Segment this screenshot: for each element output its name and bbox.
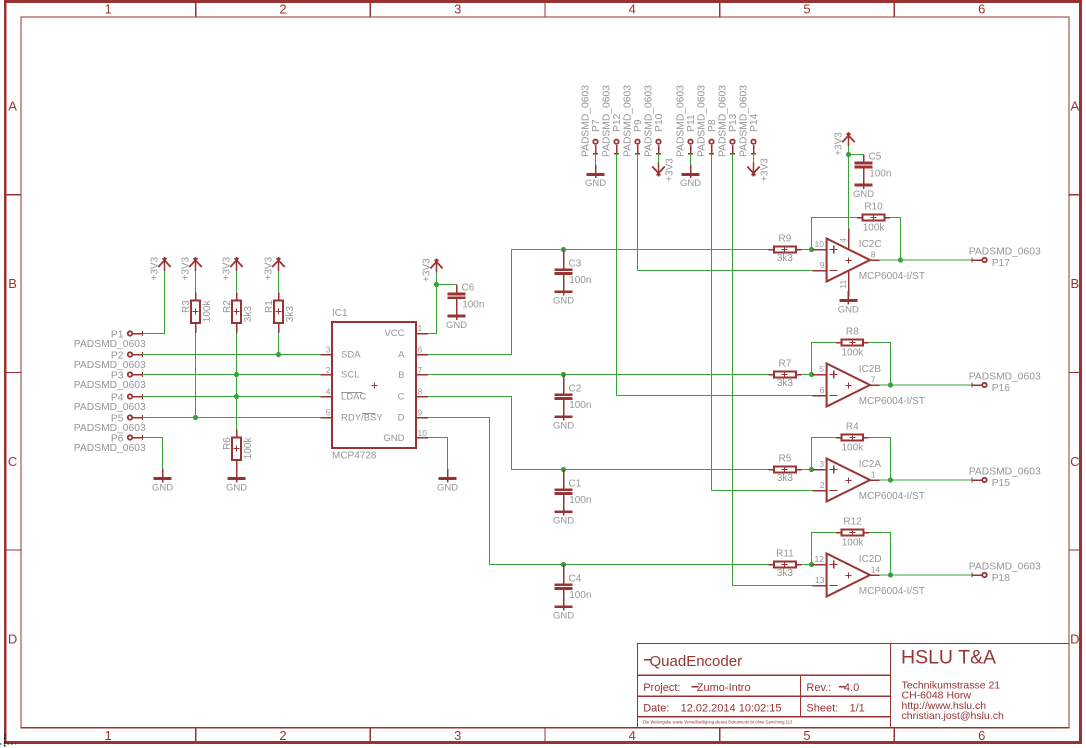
svg-text:C6: C6 (462, 283, 475, 294)
ground at C3 (553, 282, 574, 306)
svg-text:GND: GND (383, 433, 404, 444)
wire feedback IC2C (812, 218, 858, 250)
junction (846, 152, 851, 157)
resistor R10 (857, 214, 890, 220)
ground at P11 (680, 165, 701, 189)
IC1 pin names right (383, 328, 405, 444)
svg-text:5: 5 (326, 407, 331, 417)
svg-text:Sheet:: Sheet: (806, 702, 838, 714)
pad P3 (128, 372, 143, 377)
svg-text:SDA: SDA (341, 350, 361, 361)
capacitor C5 (855, 155, 873, 176)
wire P10 to +3V3 (658, 154, 660, 163)
svg-text:R5: R5 (779, 454, 792, 465)
capacitor C2 (555, 375, 573, 408)
svg-text:Die Weitergabe sowie Vervielfa: Die Weitergabe sowie Vervielfaeltigung d… (643, 719, 793, 724)
svg-text:6: 6 (418, 344, 423, 354)
svg-text:3k3: 3k3 (777, 378, 794, 389)
supply +3V3 at P10 (652, 163, 664, 177)
svg-text:GND: GND (226, 482, 247, 493)
svg-text:100k: 100k (841, 347, 864, 358)
svg-text:5: 5 (803, 728, 810, 743)
wire P6 to GND (143, 438, 163, 470)
svg-text:Zumo-Intro: Zumo-Intro (697, 682, 751, 694)
svg-text:C: C (1070, 454, 1079, 469)
pin wire R3 top (195, 292, 197, 300)
svg-text:PADSMD_0603: PADSMD_0603 (74, 402, 146, 413)
svg-text:GND: GND (680, 178, 701, 189)
svg-text:GND: GND (553, 611, 574, 622)
resistor R1 (274, 300, 283, 322)
svg-text:9: 9 (418, 407, 423, 417)
svg-text:GND: GND (437, 482, 458, 493)
svg-text:3k3: 3k3 (777, 253, 794, 264)
svg-text:IC2A: IC2A (859, 459, 882, 470)
svg-text:P18: P18 (992, 573, 1011, 584)
wire +3V3 to R3 (195, 271, 197, 292)
junction (561, 372, 566, 377)
svg-text:R12: R12 (843, 517, 862, 528)
ground at C4 (553, 597, 574, 621)
op-amp IC2D (812, 554, 879, 597)
wire P13 down (732, 154, 734, 586)
svg-text:R3: R3 (181, 300, 192, 313)
wire P7 to GND (595, 154, 597, 165)
svg-text:MCP6004-I/ST: MCP6004-I/ST (859, 586, 925, 597)
wire feedback right IC2B (869, 343, 891, 386)
svg-text:HSLU T&A: HSLU T&A (901, 647, 996, 669)
svg-text:2: 2 (820, 480, 825, 490)
svg-text:PADSMD_0603: PADSMD_0603 (676, 85, 687, 157)
svg-text:1: 1 (105, 2, 112, 17)
sheet origin mark (0, 734, 16, 748)
wire IC2B noninverting input (802, 374, 813, 376)
svg-text:100n: 100n (569, 495, 591, 506)
svg-text:PADSMD_0603: PADSMD_0603 (581, 85, 592, 157)
wire +3V3 to C6 (437, 284, 457, 286)
svg-text:B: B (1070, 276, 1079, 291)
svg-text:4: 4 (838, 238, 848, 243)
svg-text:100n: 100n (869, 169, 891, 180)
svg-text:IC2C: IC2C (859, 239, 882, 250)
title project origin mark (692, 686, 699, 688)
svg-text:+3V3: +3V3 (263, 256, 274, 280)
junction (234, 372, 239, 377)
pin wire R6 top (236, 430, 238, 438)
wire net OUTD (428, 418, 768, 565)
wire P8 to IC2A inverting input (712, 490, 813, 492)
resistor R7 (768, 371, 801, 377)
wire P1 to +3V3 (143, 271, 165, 334)
capacitor C4 (555, 565, 573, 598)
pad P16 (972, 383, 987, 388)
svg-text:LDAC: LDAC (341, 392, 366, 403)
junction (276, 352, 281, 357)
pin wire R2 top (236, 292, 238, 300)
junction (809, 372, 814, 377)
wire P14 to +3V3 (753, 154, 755, 163)
wire P9 to IC2C inverting input (638, 270, 813, 272)
svg-text:100n: 100n (569, 590, 591, 601)
junction (561, 467, 566, 472)
svg-text:+3V3: +3V3 (221, 256, 232, 280)
wire P11 to GND (690, 154, 692, 165)
svg-text:+3V3: +3V3 (180, 256, 191, 280)
wire net OUTA (428, 250, 768, 355)
junction (809, 562, 814, 567)
svg-text:8: 8 (418, 386, 423, 396)
svg-text:4.0: 4.0 (844, 682, 859, 694)
svg-text:+3V3: +3V3 (760, 158, 771, 182)
svg-text:MCP6004-I/ST: MCP6004-I/ST (859, 491, 925, 502)
ground at P6 (152, 469, 173, 493)
svg-text:MCP6004-I/ST: MCP6004-I/ST (859, 396, 925, 407)
svg-text:D: D (8, 632, 17, 647)
svg-text:PADSMD_0603: PADSMD_0603 (74, 423, 146, 434)
svg-text:12: 12 (815, 554, 825, 564)
wire R1 to SDA (278, 333, 280, 355)
svg-text:11: 11 (838, 280, 848, 289)
resistor R12 (836, 529, 869, 535)
op-amp IC2B (812, 364, 879, 407)
title rev origin mark (839, 686, 846, 688)
svg-text:14: 14 (871, 565, 881, 575)
svg-text:R8: R8 (846, 327, 859, 338)
junction (434, 282, 439, 287)
wire feedback right IC2A (869, 438, 891, 481)
pad P8 (709, 140, 714, 154)
resistor R5 (768, 466, 801, 472)
svg-text:+3V3: +3V3 (149, 256, 160, 280)
junction (888, 477, 893, 482)
title block frame (638, 644, 1070, 728)
wire feedback IC2D (812, 533, 837, 565)
svg-text:PADSMD_0603: PADSMD_0603 (644, 85, 655, 157)
junction (809, 467, 814, 472)
svg-text:PADSMD_0603: PADSMD_0603 (623, 85, 634, 157)
wire output IC2C to P17 (880, 259, 973, 261)
svg-text:10: 10 (418, 428, 428, 438)
wire P12 down (616, 154, 618, 396)
svg-text:1: 1 (871, 470, 876, 480)
IC IC1 MCP4728 body (321, 322, 429, 448)
svg-text:PADSMD_0603: PADSMD_0603 (74, 380, 146, 391)
svg-text:4: 4 (629, 2, 636, 17)
wire feedback IC2A (812, 438, 837, 470)
capacitor C3 (555, 250, 573, 283)
svg-text:IC1: IC1 (332, 308, 348, 319)
svg-text:R9: R9 (779, 234, 792, 245)
svg-text:P7: P7 (591, 119, 602, 132)
op-amp power pin 4 (848, 229, 850, 250)
capacitor C6 (448, 285, 466, 307)
svg-text:C: C (8, 454, 17, 469)
IC1 pin names left (341, 350, 384, 424)
pad P18 (972, 573, 987, 578)
svg-text:B: B (8, 276, 17, 291)
svg-text:MCP6004-I/ST: MCP6004-I/ST (859, 271, 925, 282)
svg-text:+3V3: +3V3 (665, 158, 676, 182)
wire output IC2A to P15 (880, 479, 973, 481)
svg-text:100k: 100k (202, 300, 213, 323)
wire P12 to IC2B inverting input (617, 395, 813, 397)
pin wire R1 top (278, 292, 280, 300)
ground at C6 (446, 307, 467, 331)
supply +3V3 at R1 (272, 257, 284, 271)
pad P15 (972, 478, 987, 483)
svg-text:VCC: VCC (384, 328, 404, 339)
svg-text:100n: 100n (569, 400, 591, 411)
svg-text:P10: P10 (654, 113, 665, 132)
svg-text:100k: 100k (863, 222, 886, 233)
junction (809, 247, 814, 252)
wire net OUTC (428, 397, 768, 470)
svg-text:PADSMD_0603: PADSMD_0603 (74, 443, 146, 454)
svg-text:PADSMD_0603: PADSMD_0603 (969, 562, 1041, 573)
svg-text:GND: GND (553, 421, 574, 432)
svg-text:MCP4728: MCP4728 (332, 450, 377, 461)
svg-text:PADSMD_0603: PADSMD_0603 (602, 85, 613, 157)
pad P5 (128, 415, 143, 420)
wire feedback IC2B (812, 343, 837, 375)
svg-text:P8: P8 (707, 119, 718, 132)
resistor R2 (232, 300, 241, 322)
pad P12 (614, 140, 619, 154)
svg-text:2: 2 (279, 728, 286, 743)
svg-text:+3V3: +3V3 (421, 258, 432, 282)
svg-text:A: A (398, 350, 405, 361)
frame column ticks bottom (196, 728, 895, 742)
pad P7 (593, 140, 598, 154)
wire IC2C noninverting input (802, 249, 813, 251)
wire IC2D noninverting input (802, 564, 813, 566)
pad P9 (635, 140, 640, 154)
wire net SDA (143, 354, 321, 356)
svg-text:PADSMD_0603: PADSMD_0603 (969, 372, 1041, 383)
ground at C2 (553, 407, 574, 431)
wire R3 to RDYBSY (195, 333, 197, 418)
ground at R6 (226, 469, 247, 493)
junction (898, 257, 903, 262)
svg-text:3: 3 (454, 728, 461, 743)
wire +3V3 to R2 (236, 271, 238, 292)
svg-text:C5: C5 (869, 152, 882, 163)
svg-text:100k: 100k (842, 537, 865, 548)
wire P13 to IC2D inverting input (733, 585, 813, 587)
svg-text:1: 1 (418, 323, 423, 333)
svg-text:100k: 100k (841, 442, 864, 453)
supply +3V3 at P14 (747, 163, 759, 177)
resistor R8 (836, 339, 869, 345)
svg-text:D: D (398, 413, 405, 424)
resistor R3 (191, 300, 200, 322)
op-amp IC2C (812, 239, 879, 282)
svg-text:GND: GND (553, 296, 574, 307)
svg-text:GND: GND (838, 304, 859, 315)
ground at IC2C pin 11 (838, 291, 859, 315)
svg-text:P13: P13 (728, 113, 739, 132)
svg-text:R7: R7 (779, 359, 792, 370)
svg-text:1: 1 (105, 728, 112, 743)
svg-text:8: 8 (871, 250, 876, 260)
svg-text:A: A (1070, 98, 1079, 113)
svg-text:10: 10 (815, 239, 825, 249)
svg-text:B: B (398, 370, 404, 381)
capacitor C1 (555, 470, 573, 503)
wire output IC2D to P18 (880, 574, 973, 576)
svg-text:+3V3: +3V3 (833, 132, 844, 156)
svg-text:A: A (8, 98, 17, 113)
title drawing name origin mark (644, 659, 652, 661)
resistor R11 (768, 561, 801, 567)
wire P9 down (637, 154, 639, 271)
resistor R6 (232, 437, 241, 459)
svg-text:R11: R11 (776, 549, 794, 560)
ground at P7 (585, 165, 606, 189)
svg-text:C2: C2 (569, 383, 582, 394)
pad P2 (128, 352, 143, 357)
svg-text:P12: P12 (612, 113, 623, 132)
svg-text:P14: P14 (749, 113, 760, 132)
pad P13 (730, 140, 735, 154)
wire P8 down (711, 154, 713, 491)
svg-text:D: D (1070, 632, 1079, 647)
ground at C5 (853, 176, 874, 200)
svg-text:3: 3 (326, 344, 331, 354)
svg-text:IC2D: IC2D (859, 554, 882, 565)
svg-text:P9: P9 (633, 119, 644, 132)
svg-text:3k3: 3k3 (777, 473, 794, 484)
svg-text:PADSMD_0603: PADSMD_0603 (697, 85, 708, 157)
frame column labels bottom (105, 728, 986, 743)
wire +3V3 to R1 (278, 271, 280, 292)
pin wire R3 bottom (195, 323, 197, 333)
svg-text:R2: R2 (222, 300, 233, 313)
junction (193, 415, 198, 420)
svg-text:P15: P15 (992, 478, 1011, 489)
wire +3V3 to IC2C power (848, 146, 850, 229)
supply +3V3 at R2 (230, 257, 242, 271)
svg-text:4: 4 (629, 728, 636, 743)
svg-text:3k3: 3k3 (285, 306, 296, 323)
svg-text:PADSMD_0603: PADSMD_0603 (718, 85, 729, 157)
svg-text:PADSMD_0603: PADSMD_0603 (969, 467, 1041, 478)
pad P10 (656, 140, 661, 154)
svg-text:6: 6 (978, 728, 985, 743)
svg-text:3k3: 3k3 (243, 306, 254, 323)
svg-text:1/1: 1/1 (850, 702, 865, 714)
svg-text:3: 3 (819, 459, 824, 469)
frame column labels top (105, 2, 986, 17)
svg-text:2: 2 (326, 365, 331, 375)
svg-text:C: C (398, 392, 405, 403)
resistor R4 (836, 434, 869, 440)
wire feedback right IC2C (890, 218, 900, 261)
svg-text:R1: R1 (264, 300, 275, 313)
svg-text:PADSMD_0603: PADSMD_0603 (74, 360, 146, 371)
svg-text:C4: C4 (569, 573, 582, 584)
svg-text:Rev.:: Rev.: (806, 682, 831, 694)
frame row ticks right (1069, 195, 1080, 550)
IC1 pin numbers (326, 323, 427, 438)
wire net SCL (143, 374, 321, 376)
supply +3V3 at IC1 VCC (430, 259, 442, 273)
wire net RDYBSY (143, 417, 321, 419)
pad P17 (972, 258, 987, 263)
junction (234, 394, 239, 399)
pin wire R6 bottom (236, 461, 238, 469)
ground at C1 (553, 502, 574, 526)
svg-text:Date:: Date: (643, 702, 669, 714)
svg-text:5: 5 (819, 364, 824, 374)
pad P11 (688, 140, 693, 154)
svg-text:6: 6 (820, 385, 825, 395)
svg-text:RDY/BSY: RDY/BSY (341, 413, 383, 424)
wire VCC pin1 to +3V3 (428, 273, 437, 334)
svg-text:100k: 100k (243, 437, 254, 460)
wire R2 to SCL and LDAC (236, 333, 238, 430)
svg-text:GND: GND (585, 178, 606, 189)
svg-text:4: 4 (326, 386, 331, 396)
junction (888, 382, 893, 387)
junction (888, 572, 893, 577)
svg-text:R10: R10 (864, 202, 883, 213)
svg-text:PADSMD_0603: PADSMD_0603 (74, 339, 146, 350)
supply +3V3 at P1 (158, 257, 170, 271)
svg-text:Project:: Project: (643, 682, 680, 694)
svg-text:12.02.2014 10:02:15: 12.02.2014 10:02:15 (681, 702, 782, 714)
svg-text:GND: GND (152, 482, 173, 493)
op-amp IC2A (812, 459, 879, 502)
svg-text:2: 2 (279, 2, 286, 17)
svg-text:QuadEncoder: QuadEncoder (650, 653, 743, 670)
wire IC2A noninverting input (802, 469, 813, 471)
frame row labels left (8, 98, 17, 646)
svg-text:P11: P11 (686, 114, 697, 132)
svg-text:R4: R4 (846, 422, 859, 433)
supply +3V3 at IC2C (842, 132, 854, 146)
pad P4 (128, 394, 143, 399)
junction (561, 562, 566, 567)
pad P14 (751, 140, 756, 154)
svg-text:GND: GND (853, 189, 874, 200)
supply +3V3 at R3 (189, 257, 201, 271)
svg-text:C3: C3 (569, 258, 582, 269)
svg-text:C1: C1 (569, 478, 582, 489)
svg-text:9: 9 (820, 260, 825, 270)
wire output IC2B to P16 (880, 384, 973, 386)
svg-text:GND: GND (553, 516, 574, 527)
svg-text:100n: 100n (569, 275, 591, 286)
frame row ticks left (6, 195, 21, 550)
svg-text:R6: R6 (222, 437, 233, 450)
svg-text:6: 6 (978, 2, 985, 17)
svg-text:christian.jost@hslu.ch: christian.jost@hslu.ch (902, 710, 1004, 722)
frame column ticks top (196, 3, 895, 17)
resistor R9 (768, 246, 801, 252)
svg-text:PADSMD_0603: PADSMD_0603 (739, 85, 750, 157)
svg-text:SCL: SCL (341, 369, 359, 380)
pin wire R2 bottom (236, 323, 238, 333)
pad P1 (128, 331, 143, 336)
svg-text:P17: P17 (992, 258, 1011, 269)
svg-text:P16: P16 (992, 383, 1011, 394)
wire IC1 GND pin10 to ground (428, 438, 448, 470)
wire +3V3 to C5 (849, 154, 864, 156)
frame row labels right (1070, 98, 1079, 646)
wire net OUTB (428, 374, 768, 376)
svg-text:5: 5 (803, 2, 810, 17)
